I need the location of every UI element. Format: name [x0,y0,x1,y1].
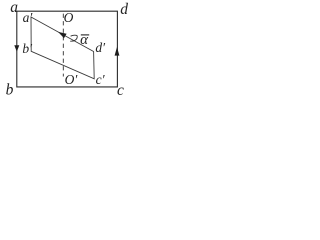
svg-text:O′: O′ [65,72,79,87]
current arrow on left edge ab (pointing down) [14,45,19,52]
svg-text:c′: c′ [96,72,106,87]
svg-text:a′: a′ [23,10,34,25]
svg-text:d′: d′ [95,40,106,55]
svg-text:c: c [117,82,124,99]
current arrow on right edge cd (pointing up) [115,47,120,56]
svg-text:O: O [64,10,74,25]
svg-text:b′: b′ [22,41,33,56]
svg-text:b: b [6,81,14,98]
svg-text:a: a [10,0,18,16]
arrowhead on edge a'd' (pointing toward a') [58,32,67,38]
angle arc alpha [70,35,77,41]
dashed axis OO' [62,14,64,77]
rectangle loop abcd [17,11,118,87]
parallelogram a'b'c'd' (rotated coil) [31,17,94,79]
svg-text:d: d [120,1,128,18]
